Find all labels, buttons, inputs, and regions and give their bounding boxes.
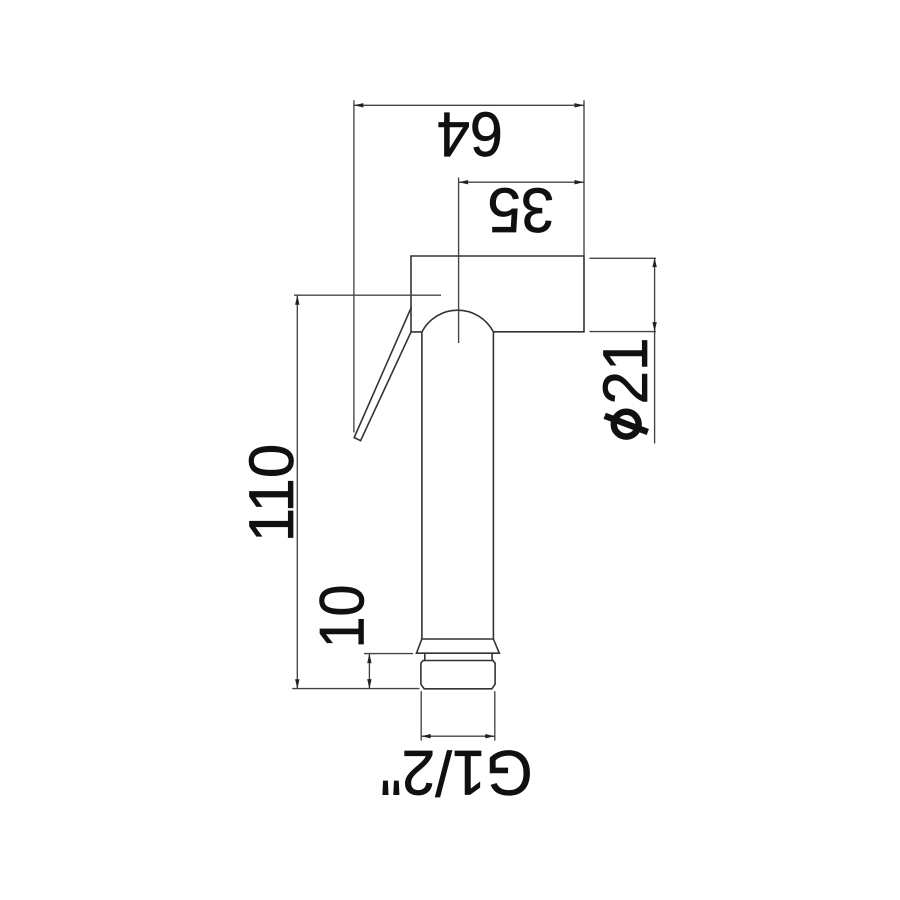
svg-text:10: 10 [306,585,377,649]
svg-text:G1/2": G1/2" [380,737,533,807]
svg-text:64: 64 [437,99,503,169]
svg-text:21: 21 [591,338,662,405]
svg-text:110: 110 [238,444,308,542]
svg-text:35: 35 [488,174,555,245]
